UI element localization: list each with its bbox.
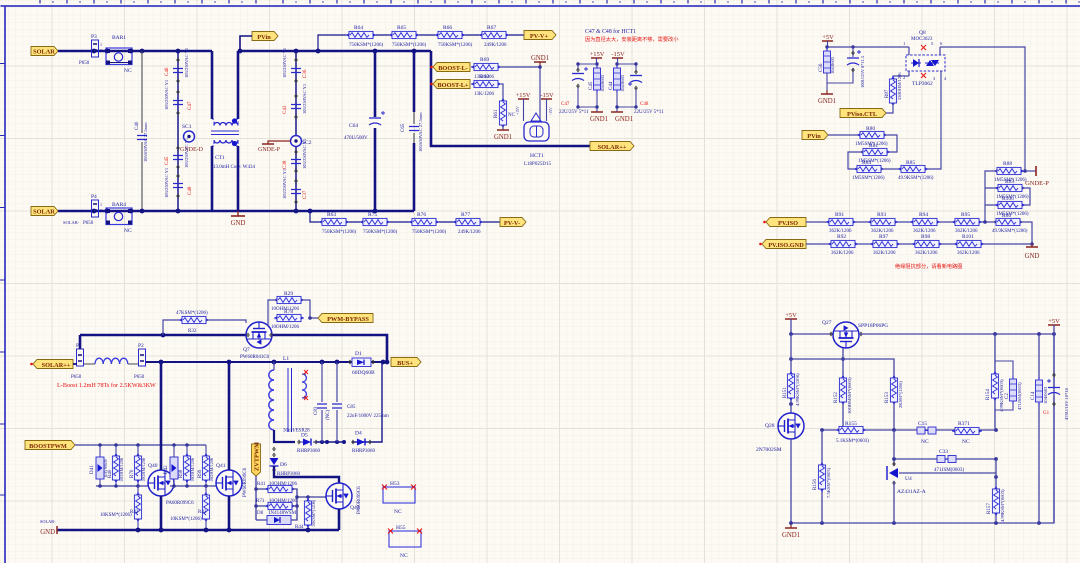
capacitor C44 smd — [609, 65, 625, 93]
svg-text:105/630VAC 27.5mm: 105/630VAC 27.5mm — [418, 112, 423, 152]
mosfet Q40 — [148, 463, 194, 506]
svg-text:GND1: GND1 — [615, 116, 633, 123]
junction ladder — [983, 220, 1034, 246]
svg-text:C48: C48 — [188, 186, 193, 195]
svg-text:P650: P650 — [71, 375, 82, 380]
svg-text:103/250VAC Y1: 103/250VAC Y1 — [164, 168, 169, 198]
diode D41 smd — [90, 445, 108, 486]
resistor R76 — [409, 212, 447, 235]
power GND1 (C47) — [590, 112, 608, 123]
wire bottom rail — [791, 334, 1054, 523]
svg-text:R100: R100 — [1002, 196, 1014, 202]
svg-text:+5V: +5V — [1048, 318, 1060, 325]
wire Q42 drain — [274, 466, 339, 483]
svg-text:R64: R64 — [354, 25, 363, 31]
svg-text:绝缘阻抗部分，请看新电路图: 绝缘阻抗部分，请看新电路图 — [895, 262, 962, 270]
power +5V — [822, 34, 834, 47]
svg-text:+5V: +5V — [785, 312, 797, 319]
wire port to P1 — [73, 363, 77, 365]
svg-text:R77: R77 — [461, 212, 470, 218]
port BOOST-L+ — [433, 80, 470, 90]
port SOLAR++ (output) — [590, 142, 634, 152]
svg-text:R92: R92 — [837, 234, 846, 240]
resistor R43 — [170, 486, 210, 530]
svg-text:BOOST-L+: BOOST-L+ — [437, 82, 468, 89]
svg-text:PVin: PVin — [807, 133, 821, 140]
wire pin6 to GNDE-P — [940, 47, 1025, 171]
svg-text:470U/16V 10*18: 470U/16V 10*18 — [1064, 387, 1069, 420]
resistor R70 — [130, 445, 146, 486]
svg-text:R101: R101 — [962, 234, 974, 240]
svg-text:249K/1206: 249K/1206 — [484, 43, 507, 48]
svg-text:R70: R70 — [130, 469, 135, 478]
svg-text:R71: R71 — [256, 499, 265, 504]
svg-text:PViso.CTL: PViso.CTL — [847, 111, 877, 118]
svg-text:L18P025D15: L18P025D15 — [524, 162, 551, 167]
surge arrester BAR1 — [106, 35, 132, 74]
svg-text:P2: P2 — [138, 343, 144, 349]
resistor R40 — [108, 445, 124, 486]
svg-text:750KSM*(1206): 750KSM*(1206) — [349, 43, 384, 48]
wire PVin to R80 — [828, 134, 860, 136]
svg-text:750KSM*(1206): 750KSM*(1206) — [438, 43, 473, 48]
svg-text:GND1: GND1 — [590, 116, 608, 123]
svg-text:P650: P650 — [79, 61, 90, 66]
svg-text:PA60R099C6: PA60R099C6 — [166, 501, 194, 506]
power GNDE-P (at SC2) — [258, 141, 291, 153]
svg-text:R40: R40 — [108, 469, 113, 478]
port PViso.CTL — [840, 109, 886, 118]
port PVin (top) — [252, 32, 278, 42]
inductor L-Boost — [84, 358, 138, 364]
wire Q40 drain/source — [160, 362, 163, 530]
power GND (below CT1) — [231, 211, 246, 227]
svg-text:C33: C33 — [939, 449, 948, 455]
svg-text:TLP3062: TLP3062 — [912, 81, 933, 87]
svg-text:C14: C14 — [1031, 391, 1036, 400]
capacitor C85 — [332, 362, 389, 442]
power -15V (C48) — [611, 51, 625, 64]
port PV.ISO — [766, 218, 806, 228]
svg-text:BAR1: BAR1 — [112, 35, 126, 41]
svg-text:Q27: Q27 — [822, 320, 832, 326]
port PV.ISO.GND — [762, 240, 806, 250]
wire +5V rail — [827, 46, 909, 48]
port BOOSTPWM — [25, 441, 75, 451]
svg-text:22U/25V 5*11: 22U/25V 5*11 — [559, 110, 589, 115]
resistor R92 — [828, 234, 858, 256]
capacitor C65 X-cap — [401, 51, 423, 211]
current sensor HCT1 — [516, 106, 553, 167]
svg-text:R99: R99 — [198, 469, 203, 478]
wire P1 up to bus — [79, 335, 82, 349]
resistor R80 — [855, 126, 888, 147]
svg-text:PW60R041C6: PW60R041C6 — [240, 355, 270, 360]
diode D42 smd — [164, 445, 178, 486]
svg-text:MOC3023: MOC3023 — [911, 37, 933, 42]
svg-text:4.99KSM*(0603): 4.99KSM*(0603) — [999, 379, 1004, 412]
connector P2 — [134, 343, 146, 380]
wire main node — [146, 361, 344, 363]
resistor R77 — [453, 212, 483, 235]
diode D4 — [352, 431, 376, 455]
resistor R78 — [268, 309, 318, 330]
svg-text:PV-V+: PV-V+ — [530, 33, 549, 40]
resistor R153 — [885, 375, 903, 430]
wire ladder left rail — [985, 171, 998, 222]
wire gate rail — [791, 359, 894, 377]
svg-text:R78: R78 — [284, 309, 293, 315]
power -15V (HCT) — [540, 92, 554, 121]
common mode choke CT1 — [211, 51, 255, 211]
svg-text:4.99KSM*(0603): 4.99KSM*(0603) — [1000, 489, 1005, 522]
wire Q27 gate — [842, 348, 844, 377]
wire PV.ISO.GND row — [806, 243, 1032, 245]
svg-text:103/250VAC Y1: 103/250VAC Y1 — [184, 138, 189, 168]
svg-text:R95: R95 — [961, 212, 970, 218]
resistor R155 — [836, 421, 869, 444]
svg-text:U4: U4 — [905, 476, 912, 482]
svg-text:C64: C64 — [349, 123, 358, 129]
svg-text:C65: C65 — [401, 123, 406, 132]
capacitor C56 smd — [819, 47, 835, 90]
shunt reference U4 AZ431 — [887, 462, 996, 523]
resistor chain R64 R65 R66 R67 to PV-V+ — [318, 35, 524, 51]
svg-text:C37: C37 — [303, 190, 308, 199]
svg-text:H55: H55 — [396, 525, 406, 531]
svg-text:R41: R41 — [257, 482, 266, 487]
power GND1 (C56) — [818, 90, 836, 105]
svg-text:NC: NC — [394, 509, 402, 515]
svg-text:C83: C83 — [314, 406, 319, 415]
svg-text:R67: R67 — [487, 25, 496, 31]
svg-text:C47 & C48 for HCT1: C47 & C48 for HCT1 — [585, 28, 636, 35]
svg-text:R75: R75 — [368, 212, 377, 218]
svg-text:Q41: Q41 — [216, 463, 226, 469]
resistor R89 — [995, 179, 1029, 200]
resistor R32 — [163, 311, 246, 335]
resistor R44 — [295, 497, 316, 530]
power +5V (left) — [785, 312, 797, 334]
svg-text:SOLAR++: SOLAR++ — [598, 144, 627, 151]
wire HCT feed — [431, 51, 590, 146]
wire Q28 source to GND1 — [790, 439, 792, 523]
svg-text:103/250VAC Y1: 103/250VAC Y1 — [184, 48, 189, 78]
resistor R91 — [826, 212, 856, 234]
capacitor C47 cluster wires — [578, 64, 597, 112]
wire gate node Q40 — [96, 485, 149, 487]
svg-text:PV.ISO.GND: PV.ISO.GND — [768, 242, 804, 249]
svg-text:2N7002SM: 2N7002SM — [756, 447, 782, 453]
svg-text:R81: R81 — [869, 143, 878, 149]
svg-text:10OHM/1206: 10OHM/1206 — [269, 482, 298, 487]
svg-text:2KSM*(1206): 2KSM*(1206) — [898, 381, 903, 408]
border zone tick marks — [0, 64, 5, 496]
wire R69 to HCT — [501, 67, 540, 116]
resistor R65 — [389, 25, 427, 48]
svg-text:R93: R93 — [877, 212, 886, 218]
wire PVin drop — [240, 36, 252, 51]
svg-text:2: 2 — [100, 208, 102, 213]
mosfet Q28 — [756, 413, 804, 453]
svg-text:PWM-BYPASS: PWM-BYPASS — [327, 316, 369, 323]
svg-text:1: 1 — [100, 202, 102, 207]
svg-text:PVin: PVin — [257, 34, 271, 41]
svg-text:104/0603: 104/0603 — [600, 74, 605, 92]
optocoupler Q8 — [903, 30, 947, 87]
capacitor C2 — [995, 361, 1022, 410]
svg-text:2: 2 — [100, 48, 102, 53]
svg-text:104/0603: 104/0603 — [620, 74, 625, 92]
wire gate feed — [75, 444, 206, 446]
svg-text:1M5SM*(1206): 1M5SM*(1206) — [852, 176, 885, 181]
svg-text:C56: C56 — [819, 63, 824, 72]
resistor R87 — [885, 72, 902, 113]
svg-text:因为直径太大，安装距离不够，需要改小: 因为直径太大，安装距离不够，需要改小 — [585, 35, 679, 43]
svg-text:R69: R69 — [480, 57, 489, 63]
svg-text:(NC): (NC) — [326, 409, 331, 420]
resistor R63 — [319, 212, 357, 235]
resistor R86 — [992, 213, 1028, 234]
port PVin (iso input) — [802, 131, 828, 141]
wire Q42 source — [338, 509, 341, 530]
svg-text:GNDE-P: GNDE-P — [1025, 180, 1049, 187]
svg-text:R63: R63 — [327, 212, 336, 218]
svg-text:P650: P650 — [134, 375, 145, 380]
svg-text:100U/25V 8*11.5: 100U/25V 8*11.5 — [860, 55, 865, 88]
resistor R101 — [954, 234, 984, 256]
svg-text:BUS+: BUS+ — [397, 360, 413, 367]
svg-text:-15V: -15V — [549, 107, 553, 115]
svg-text:C45: C45 — [165, 156, 170, 165]
svg-text:G1: G1 — [1043, 411, 1050, 416]
wire C33 row — [894, 430, 996, 466]
svg-text:Q28: Q28 — [765, 423, 775, 429]
diode D5 — [297, 433, 321, 455]
resistor R75 — [360, 212, 398, 235]
svg-text:GND: GND — [231, 220, 246, 227]
power +15V (C47) — [590, 51, 605, 64]
svg-text:103/250VAC Y1: 103/250VAC Y1 — [282, 48, 287, 78]
svg-text:CT1: CT1 — [215, 155, 225, 161]
surge arrester BAR4 — [106, 202, 132, 234]
svg-text:AZ431AZ-A: AZ431AZ-A — [897, 489, 926, 495]
no-erc X marks L1 — [304, 370, 308, 400]
svg-text:NC: NC — [962, 439, 970, 445]
resistor R154 — [986, 334, 1004, 430]
capacitor C14 — [1031, 334, 1048, 523]
svg-text:BOOST-L-: BOOST-L- — [438, 65, 468, 72]
svg-text:104/0603: 104/0603 — [1043, 386, 1048, 404]
svg-text:362K/1206: 362K/1206 — [831, 251, 854, 256]
resistor R156 — [813, 430, 831, 523]
svg-text:R86: R86 — [1002, 213, 1011, 219]
wire hook R81-R84 — [848, 152, 863, 169]
resistor R100 — [995, 196, 1029, 217]
svg-text:Q7: Q7 — [243, 347, 250, 353]
capacitor C64 electrolytic — [344, 51, 385, 211]
svg-text:D42: D42 — [164, 465, 169, 474]
svg-text:C48: C48 — [640, 102, 649, 107]
svg-text:750KSM*(1206): 750KSM*(1206) — [412, 230, 447, 235]
power GND1 (C48) — [611, 112, 633, 123]
svg-text:C36: C36 — [303, 69, 308, 78]
power +15V (HCT) — [516, 92, 531, 121]
junction pin4 — [1023, 169, 1027, 173]
resistor R151 — [783, 334, 800, 413]
power GND rail — [40, 519, 339, 536]
resistor R88 — [994, 161, 1027, 183]
svg-text:471JSM(0603): 471JSM(0603) — [1017, 382, 1022, 410]
wire hook R89-R100 — [1022, 188, 1030, 205]
svg-text:362K/1206: 362K/1206 — [915, 251, 938, 256]
svg-text:1: 1 — [100, 42, 102, 47]
svg-text:GNDE-P: GNDE-P — [258, 147, 281, 153]
svg-text:C38: C38 — [283, 160, 288, 169]
mosfet Q42 — [326, 483, 362, 514]
svg-text:10OHMSM*(0603): 10OHMSM*(0603) — [847, 377, 852, 414]
svg-text:RHRP3060: RHRP3060 — [352, 449, 376, 454]
svg-text:C40: C40 — [135, 121, 140, 130]
svg-text:C44: C44 — [609, 81, 614, 90]
port SOLAR (bottom) — [31, 207, 58, 216]
svg-text:R156: R156 — [813, 479, 818, 490]
mosfet Q7 — [240, 322, 272, 360]
svg-text:362K/1206: 362K/1206 — [873, 251, 896, 256]
svg-text:103/250VAC Y1: 103/250VAC Y1 — [302, 84, 307, 114]
svg-text:RHRP3060: RHRP3060 — [297, 449, 321, 454]
svg-text:C47: C47 — [561, 102, 570, 107]
capacitor C45 smd — [589, 65, 605, 93]
svg-text:P4: P4 — [91, 194, 97, 200]
svg-text:10OHM/1206: 10OHM/1206 — [209, 457, 214, 482]
wire fb row — [822, 429, 996, 431]
svg-text:10OHM/1206: 10OHM/1206 — [271, 325, 300, 330]
svg-text:R157: R157 — [987, 503, 992, 514]
svg-text:-15V: -15V — [611, 51, 625, 58]
svg-text:R66: R66 — [443, 25, 452, 31]
svg-text:R371: R371 — [958, 421, 970, 427]
diode D6 vertical — [270, 447, 301, 477]
svg-text:P3: P3 — [91, 34, 97, 40]
capacitor C83 — [314, 362, 331, 442]
connector P1 — [71, 343, 84, 380]
svg-text:750KSM*(1206): 750KSM*(1206) — [392, 43, 427, 48]
resistor R29 — [268, 291, 310, 318]
wire PV.ISO row — [806, 221, 996, 223]
port PV-V- — [500, 218, 526, 228]
junction dots gnd rail — [136, 528, 311, 533]
svg-text:C85: C85 — [347, 405, 356, 410]
svg-text:D41: D41 — [90, 465, 95, 474]
svg-text:+5V: +5V — [822, 34, 834, 41]
svg-text:BAR4: BAR4 — [112, 202, 126, 208]
svg-text:10KSM*(1206): 10KSM*(1206) — [311, 499, 316, 527]
svg-text:22U/25V 5*11: 22U/25V 5*11 — [634, 110, 664, 115]
spark gap SC2 — [291, 136, 312, 147]
test point H53 — [383, 481, 415, 515]
svg-text:NC: NC — [124, 228, 132, 234]
svg-text:L-Boost 1.2mH 78Ts for 2.5KW&3: L-Boost 1.2mH 78Ts for 2.5KW&3KW — [57, 382, 156, 389]
svg-text:49.9KSM*(1206): 49.9KSM*(1206) — [898, 176, 934, 181]
svg-text:4.99KSM*(1206): 4.99KSM*(1206) — [795, 373, 800, 406]
resistor R95 — [952, 212, 982, 234]
capacitor C63 electrolytic — [827, 47, 865, 88]
resistor R99 — [198, 445, 214, 486]
svg-text:R43: R43 — [198, 510, 207, 515]
svg-text:+15V: +15V — [516, 92, 531, 99]
svg-text:R155: R155 — [845, 421, 857, 427]
svg-text:SPP18P06PG: SPP18P06PG — [858, 323, 888, 329]
svg-text:1M5SM*(1206): 1M5SM*(1206) — [996, 212, 1029, 217]
wire hook R80-R81 — [884, 135, 897, 152]
svg-text:R151: R151 — [783, 387, 788, 398]
resistor R157 — [987, 459, 1005, 523]
svg-text:470U/500V: 470U/500V — [344, 136, 368, 141]
svg-text:10OHM/1206: 10OHM/1206 — [119, 457, 124, 482]
port PWM-BYPASS — [318, 314, 373, 323]
svg-text:R88: R88 — [1003, 161, 1012, 167]
svg-text:R32: R32 — [188, 329, 197, 334]
svg-text:C15: C15 — [918, 421, 927, 427]
resistor R64 — [346, 25, 384, 48]
svg-text:NC: NC — [124, 68, 132, 74]
svg-text:D4: D4 — [355, 431, 362, 437]
svg-text:10KSM*(1206): 10KSM*(1206) — [170, 517, 202, 522]
resistor R85 — [881, 160, 934, 181]
svg-text:PW60R099C6: PW60R099C6 — [243, 467, 248, 497]
junction dots bottom bus — [92, 209, 378, 214]
wire R86 to GND — [1020, 222, 1032, 244]
svg-text:249K/1206: 249K/1206 — [458, 230, 481, 235]
wire bottom bus — [58, 210, 414, 213]
test point H55 — [389, 525, 421, 559]
svg-text:GND1: GND1 — [531, 55, 549, 62]
svg-text:C47: C47 — [188, 101, 193, 110]
svg-text:13.0mH Core: W434: 13.0mH Core: W434 — [213, 165, 255, 170]
no-erc X H53 — [382, 485, 416, 490]
resistor R71 — [256, 499, 298, 510]
power GNDE-P (right) — [1025, 166, 1049, 187]
svg-text:60DQ60B: 60DQ60B — [352, 370, 375, 376]
capacitor C33 — [934, 449, 964, 473]
svg-text:Q8: Q8 — [919, 30, 926, 36]
svg-text:GND: GND — [40, 529, 55, 536]
resistor R41 — [257, 482, 298, 493]
svg-text:C43: C43 — [283, 105, 288, 114]
svg-text:NC: NC — [508, 113, 516, 118]
svg-text:362K/1206: 362K/1206 — [957, 251, 980, 256]
power GND1 (below R61) — [494, 130, 512, 141]
svg-text:R89: R89 — [1005, 179, 1014, 185]
svg-text:R61: R61 — [494, 109, 499, 118]
port ZVTPWM vertical — [252, 442, 261, 476]
svg-text:GND1: GND1 — [782, 532, 800, 539]
port SOLAR++ (input) — [33, 360, 73, 369]
svg-text:10KSM*(1206): 10KSM*(1206) — [100, 513, 132, 518]
svg-text:SOLAR-: SOLAR- — [40, 519, 56, 524]
svg-text:SOLAR: SOLAR — [33, 49, 55, 56]
svg-text:SOLAR++: SOLAR++ — [42, 362, 71, 369]
no-erc X marks — [921, 45, 926, 78]
spark gap SC1 — [182, 124, 195, 142]
wire right rail Q42 gate — [291, 489, 327, 520]
svg-text:-15V: -15V — [540, 92, 554, 99]
svg-text:R29: R29 — [284, 291, 293, 297]
power +5V (right) — [1048, 318, 1060, 334]
svg-text:R65: R65 — [397, 25, 406, 31]
wire +5V to Q27 — [791, 333, 833, 335]
